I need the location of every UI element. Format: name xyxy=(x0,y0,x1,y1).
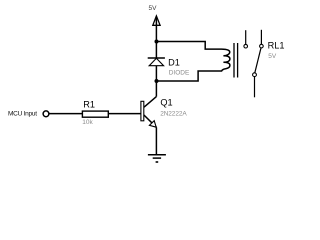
svg-text:5V: 5V xyxy=(268,53,277,60)
svg-text:10k: 10k xyxy=(82,119,93,126)
svg-text:5V: 5V xyxy=(149,5,158,12)
svg-text:R1: R1 xyxy=(83,100,95,110)
svg-text:RL1: RL1 xyxy=(268,40,285,50)
svg-text:Q1: Q1 xyxy=(160,98,172,108)
svg-text:2N2222A: 2N2222A xyxy=(160,110,187,117)
svg-text:DIODE: DIODE xyxy=(169,70,190,77)
svg-text:MCU Input: MCU Input xyxy=(8,111,37,118)
svg-text:D1: D1 xyxy=(168,58,180,68)
